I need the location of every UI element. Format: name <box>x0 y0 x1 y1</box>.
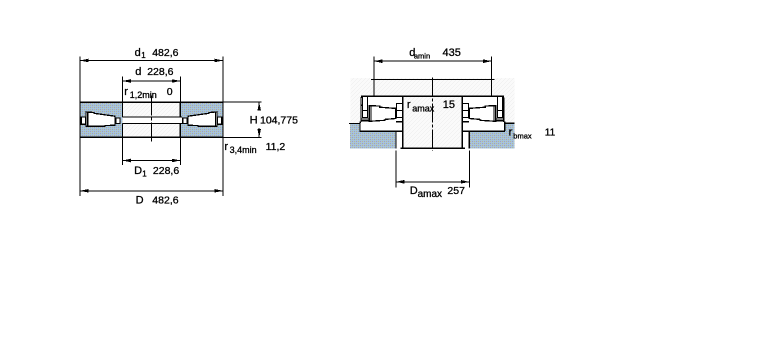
D_amax arrows <box>396 180 405 184</box>
right roller <box>188 112 217 127</box>
svg-text:435: 435 <box>443 47 461 59</box>
D1 arrows <box>122 159 130 163</box>
right cage notch <box>217 117 221 124</box>
pillar edge left <box>402 96 404 148</box>
svg-text:d: d <box>135 66 141 78</box>
left washer seam stubs <box>361 104 363 106</box>
d_amin extension lines <box>373 57 375 80</box>
d dimension line <box>122 80 180 82</box>
d_amin dimension line <box>374 60 492 62</box>
housing washer bottom line left <box>359 130 402 132</box>
H extension bottom <box>223 136 262 138</box>
right outer rib box <box>498 111 503 118</box>
shaft pillar hatched <box>403 96 463 148</box>
washer blue body <box>81 103 223 137</box>
svg-text:257: 257 <box>447 185 465 197</box>
right washer seam stubs <box>502 104 504 106</box>
svg-text:1: 1 <box>142 169 147 178</box>
shaft hatched slab <box>350 78 514 124</box>
left roller (mounted view) <box>369 106 396 122</box>
housing bore edge right <box>468 131 470 148</box>
svg-text:3,4min: 3,4min <box>230 145 257 155</box>
H arrow shafts <box>258 102 260 110</box>
right inner rib box <box>463 111 469 118</box>
d_amin arrows <box>374 59 383 63</box>
D_amax dimension line <box>396 181 470 183</box>
bearing top edge redraw <box>361 95 504 97</box>
left cage notch <box>81 117 85 124</box>
svg-text:r: r <box>509 127 513 139</box>
D dimension line <box>80 190 223 192</box>
svg-text:r: r <box>124 86 128 98</box>
extension line outer-right <box>222 56 224 102</box>
svg-text:amax: amax <box>418 189 442 200</box>
left roller <box>86 112 115 127</box>
extension line inner-left <box>121 76 123 102</box>
right roller (mounted view) <box>469 106 496 122</box>
d arrows <box>122 79 130 83</box>
svg-text:15: 15 <box>443 99 455 111</box>
left inner cage square <box>116 118 120 123</box>
housing washer step right <box>503 122 506 131</box>
svg-text:1: 1 <box>141 51 146 60</box>
left outer rib box <box>363 111 368 118</box>
d1 arrows <box>80 59 89 63</box>
svg-text:11: 11 <box>545 127 556 138</box>
svg-text:11,2: 11,2 <box>266 141 286 153</box>
housing blue left <box>350 124 396 149</box>
d1 dimension line <box>80 60 223 62</box>
svg-text:D: D <box>410 185 418 197</box>
housing washer step left <box>360 122 361 131</box>
D arrows <box>80 189 89 193</box>
bearing white fill <box>360 96 505 131</box>
svg-text:r: r <box>407 99 411 111</box>
center line right view <box>432 78 434 152</box>
bore hatched middle <box>123 103 180 137</box>
svg-text:bmax: bmax <box>513 132 532 141</box>
H arrows <box>257 102 261 111</box>
extension line outer-left <box>79 56 81 102</box>
svg-text:482,6: 482,6 <box>152 194 178 206</box>
svg-text:r: r <box>224 141 228 153</box>
svg-text:228,6: 228,6 <box>147 66 173 78</box>
housing blue right <box>469 124 515 149</box>
extension line inner-right <box>179 76 181 102</box>
bore edge right <box>179 102 181 117</box>
housing shoulder line left <box>349 123 360 125</box>
svg-text:amin: amin <box>414 51 430 60</box>
housing shoulder line right <box>505 122 515 124</box>
svg-text:104,775: 104,775 <box>260 114 298 126</box>
bearing outline top and sides <box>361 96 504 122</box>
D1 dimension line <box>122 160 180 162</box>
svg-text:0: 0 <box>167 86 173 98</box>
housing bore edge left <box>395 131 397 148</box>
right inner cage square <box>183 118 187 123</box>
D_amax extension lines <box>395 150 397 187</box>
shaft end bottom line <box>401 147 465 149</box>
pillar edge right <box>461 96 463 148</box>
svg-text:D: D <box>136 194 144 206</box>
bearing outline <box>80 102 223 137</box>
svg-text:d: d <box>135 47 141 59</box>
shaft step edges <box>373 79 375 96</box>
svg-text:482,6: 482,6 <box>152 47 178 59</box>
shaft washer bar <box>122 117 181 123</box>
H extension top <box>223 101 262 103</box>
shaft shoulder top line <box>371 78 494 80</box>
right cage slot lines <box>502 96 504 110</box>
left inner rib box <box>397 111 403 118</box>
housing washer bottom line right <box>462 130 505 132</box>
center line <box>151 96 153 142</box>
svg-text:228,6: 228,6 <box>153 165 179 177</box>
left cage slot lines <box>362 96 364 110</box>
svg-text:amax: amax <box>412 103 435 113</box>
svg-text:H: H <box>250 114 258 126</box>
svg-text:D: D <box>134 165 142 177</box>
svg-text:1,2min: 1,2min <box>130 90 157 100</box>
bore edge left <box>121 102 123 117</box>
